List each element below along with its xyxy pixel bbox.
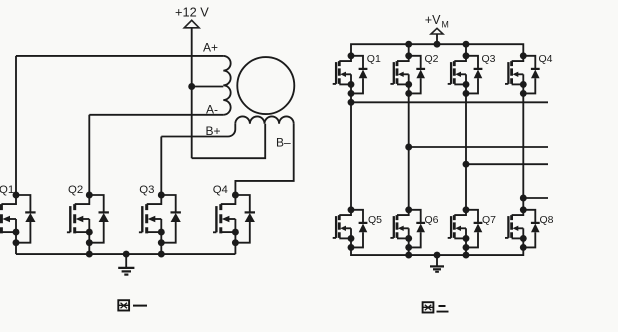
wire half-bridge 4 midpoint vertical xyxy=(522,93,524,209)
power label +VM xyxy=(425,13,449,29)
node phase 2 tap junction xyxy=(405,144,412,151)
power symbol +VM (open triangle) xyxy=(431,28,443,34)
wire Q2 drain stub xyxy=(408,44,410,56)
svg-text:+12 V: +12 V xyxy=(175,4,209,19)
node rail junction Q2 xyxy=(405,41,412,48)
inductor winding A (vertical, center tapped) xyxy=(223,56,230,115)
transistor Q4 (figure 2 high-side N-MOSFET) xyxy=(505,52,527,97)
node rail junction Q3 xyxy=(463,41,470,48)
wire Q3 drain vertical xyxy=(160,137,162,196)
wire Q6 source stub xyxy=(408,247,410,255)
svg-text:+V: +V xyxy=(425,13,441,27)
node rail junction Q7 source xyxy=(463,252,470,259)
node A winding center tap junction xyxy=(188,83,195,90)
svg-text:Q3: Q3 xyxy=(482,53,496,65)
svg-text:A+: A+ xyxy=(203,41,218,55)
wire phase output 2 xyxy=(409,146,548,148)
flyback diode across Q7 xyxy=(466,210,482,248)
ground (figure 1) xyxy=(118,251,134,275)
wire phase output 3 xyxy=(466,163,548,165)
ground (figure 2) xyxy=(430,252,444,272)
node rail junction Q2 source xyxy=(86,251,93,258)
node rail junction Q3 source xyxy=(158,251,165,258)
svg-text:Q4: Q4 xyxy=(213,184,228,196)
transistor Q2 (figure 2 high-side N-MOSFET) xyxy=(390,52,412,97)
svg-text:Q1: Q1 xyxy=(0,184,14,196)
wire A+ (Q1 drain to winding top) xyxy=(16,55,223,57)
svg-text:Q2: Q2 xyxy=(68,184,83,196)
wire half-bridge 1 midpoint vertical xyxy=(350,93,352,209)
wire Q2 drain vertical xyxy=(88,115,90,195)
wire +12V supply vertical xyxy=(191,28,193,158)
svg-text:Q8: Q8 xyxy=(540,214,554,226)
transistor Q1 (figure 1 N-MOSFET) xyxy=(0,192,19,255)
flyback diode across Q4 xyxy=(523,56,539,94)
wire Q3 drain stub xyxy=(465,44,467,56)
flyback diode across Q1 xyxy=(351,56,367,94)
flyback diode across Q3 xyxy=(161,195,181,243)
flyback diode across Q2 xyxy=(409,56,425,94)
wire common source rail (figure 1) xyxy=(16,253,235,255)
transistor Q2 (figure 1 N-MOSFET) xyxy=(67,192,93,255)
flyback diode across Q4 xyxy=(235,195,255,243)
svg-text:B–: B– xyxy=(276,136,291,150)
svg-text:Q7: Q7 xyxy=(482,214,496,226)
node phase 3 tap junction xyxy=(463,161,470,168)
node phase 4 tap junction xyxy=(520,195,527,202)
transistor Q7 (figure 2 low-side N-MOSFET) xyxy=(448,206,470,251)
inductor winding B (horizontal) xyxy=(235,116,293,123)
node phase 1 tap junction xyxy=(348,99,355,106)
wire Q1 drain vertical xyxy=(15,56,17,195)
flyback diode across Q6 xyxy=(409,210,425,248)
caption 图二 (Figure 2) xyxy=(423,302,449,312)
transistor Q5 (figure 2 low-side N-MOSFET) xyxy=(333,206,355,251)
power symbol +12V (open triangle) xyxy=(184,20,199,28)
transistor Q6 (figure 2 low-side N-MOSFET) xyxy=(390,206,412,251)
node rail junction +VM xyxy=(434,41,441,48)
transistor Q3 (figure 1 N-MOSFET) xyxy=(139,192,165,255)
wire +VM supply rail xyxy=(351,44,523,56)
flyback diode across Q1 xyxy=(16,195,36,243)
transistor Q1 (figure 2 high-side N-MOSFET) xyxy=(333,52,355,97)
wire phase output 1 xyxy=(351,101,548,103)
wire Q7 source stub xyxy=(465,247,467,255)
transistor Q3 (figure 2 high-side N-MOSFET) xyxy=(448,52,470,97)
transistor Q8 (figure 2 low-side N-MOSFET) xyxy=(505,206,527,251)
node rail junction Q6 source xyxy=(405,252,412,259)
svg-text:Q3: Q3 xyxy=(139,184,154,196)
svg-text:Q6: Q6 xyxy=(425,214,439,226)
wire common source rail (figure 2) xyxy=(351,247,523,255)
wire half-bridge 3 midpoint vertical xyxy=(465,93,467,209)
svg-text:Q4: Q4 xyxy=(539,53,553,65)
flyback diode across Q3 xyxy=(466,56,482,94)
motor (stepper motor circle) xyxy=(237,57,294,114)
transistor Q4 (figure 1 N-MOSFET) xyxy=(213,192,239,255)
wire B+ (Q3 drain to winding left) xyxy=(161,124,235,137)
wire phase output 4 xyxy=(523,197,548,199)
wire A winding center tap xyxy=(192,86,224,88)
flyback diode across Q8 xyxy=(523,210,539,248)
wire A- (Q2 drain to winding bottom) xyxy=(89,114,223,116)
flyback diode across Q2 xyxy=(89,195,109,243)
svg-text:Q1: Q1 xyxy=(367,53,381,65)
svg-text:M: M xyxy=(442,20,449,30)
svg-text:Q5: Q5 xyxy=(368,214,382,226)
wire half-bridge 2 midpoint vertical xyxy=(408,93,410,209)
caption 图一 (Figure 1) xyxy=(118,300,147,310)
wire B winding center tap feed xyxy=(192,124,266,159)
svg-text:Q2: Q2 xyxy=(425,53,439,65)
flyback diode across Q5 xyxy=(351,210,367,248)
wire B- return to Q4 drain xyxy=(235,124,293,195)
wire +VM stem xyxy=(436,34,438,44)
